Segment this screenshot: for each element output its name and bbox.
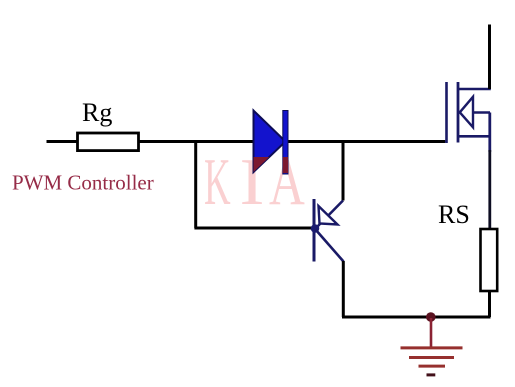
MOSFET U1 body stub <box>460 111 491 114</box>
transistor Q1 emitter diagonal (upper) <box>316 201 344 229</box>
ground bar 2 <box>409 356 454 359</box>
ground bar 1 <box>401 346 463 349</box>
MOSFET U1 body arrow <box>460 97 473 128</box>
svg-text:Rg: Rg <box>82 98 112 127</box>
ground junction dot <box>426 312 436 322</box>
ground bar 3 <box>419 365 446 368</box>
ground stem <box>430 318 433 348</box>
resistor RS <box>481 229 498 291</box>
transistor Q1 base junction dot <box>311 224 320 233</box>
wire: left branch down and bottom to base <box>194 142 314 229</box>
wire: drain vertical <box>488 25 491 90</box>
MOSFET U1 source stub <box>458 135 490 138</box>
wire: source/body vertical down to RS <box>488 113 491 153</box>
watermark overlap tint on diode <box>240 157 289 173</box>
svg-text:RS: RS <box>438 200 470 229</box>
wire: left input stub <box>47 140 79 143</box>
ground bar 4 <box>427 373 436 376</box>
wire: collector vertical down to bottom wire <box>342 261 345 317</box>
MOSFET U1 drain stub <box>458 88 491 91</box>
wire: main horizontal gate wire <box>137 140 445 143</box>
resistor Rg <box>78 133 139 151</box>
transistor Q1 emitter arrow <box>319 206 338 225</box>
svg-text:PWM Controller: PWM Controller <box>12 171 154 195</box>
MOSFET U1 gate bar <box>445 82 447 143</box>
transistor Q1 collector diagonal (lower) <box>316 230 344 262</box>
wire: bottom horizontal <box>342 316 491 319</box>
watermark KIA <box>204 144 305 219</box>
diode D1 cathode bar <box>283 111 288 175</box>
transistor Q1 base bar <box>313 199 316 262</box>
MOSFET U1 channel bar <box>457 82 460 143</box>
diode D1 triangle <box>254 111 286 173</box>
svg-text:K: K <box>204 145 231 219</box>
wire: collector vertical from gate wire <box>342 142 345 201</box>
wire: below RS <box>488 291 491 317</box>
